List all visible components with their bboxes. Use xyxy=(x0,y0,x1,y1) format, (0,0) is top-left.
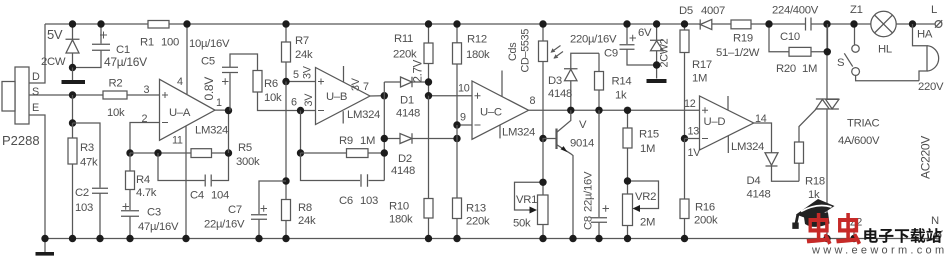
svg-text:200k: 200k xyxy=(694,215,718,227)
svg-text:3V: 3V xyxy=(302,65,314,79)
diode D2 xyxy=(384,133,457,143)
node rail-R12 xyxy=(453,20,460,27)
svg-text:C10: C10 xyxy=(780,31,800,43)
wire U-D out xyxy=(754,123,772,153)
node D1-R11 xyxy=(425,78,432,85)
node line-R15 xyxy=(624,107,631,114)
svg-text:104: 104 xyxy=(211,190,229,202)
svg-text:4: 4 xyxy=(177,76,183,88)
op-amp U-D xyxy=(700,96,754,150)
svg-text:4007: 4007 xyxy=(701,5,725,17)
svg-text:4A/600V: 4A/600V xyxy=(838,135,880,147)
svg-text:LM324: LM324 xyxy=(502,127,535,139)
svg-text:C5: C5 xyxy=(201,56,215,68)
svg-text:12: 12 xyxy=(684,98,696,110)
ground regulator xyxy=(647,79,667,83)
resistor R17 xyxy=(680,24,689,139)
node pin9 xyxy=(453,121,460,128)
svg-text:180k: 180k xyxy=(389,214,413,226)
node R3-C2 branch xyxy=(69,119,76,126)
svg-text:R1: R1 xyxy=(140,37,154,49)
U-C minus mark xyxy=(475,124,481,126)
resistor R16 xyxy=(680,139,689,239)
svg-text:Z1: Z1 xyxy=(850,4,863,16)
svg-text:R6: R6 xyxy=(264,78,278,90)
U-C ground tick xyxy=(499,125,501,138)
node VR2-gnd xyxy=(624,235,631,242)
resistor R6 xyxy=(253,71,316,111)
node R5-C4-out xyxy=(225,149,232,156)
node U-B out xyxy=(381,92,388,99)
node C2-gnd xyxy=(96,235,103,242)
capacitor C9 xyxy=(620,24,657,65)
watermark xyxy=(792,199,945,256)
svg-text:TRIAC: TRIAC xyxy=(847,118,880,130)
svg-text:R19: R19 xyxy=(733,33,753,45)
node rail-zener2 xyxy=(653,20,660,27)
svg-text:51–1/2W: 51–1/2W xyxy=(716,47,760,59)
op-amp U-C xyxy=(472,81,529,139)
svg-text:13: 13 xyxy=(688,126,700,138)
svg-text:22µ/16V: 22µ/16V xyxy=(583,171,595,212)
svg-text:R10: R10 xyxy=(389,201,409,213)
diode D5 (series in rail) xyxy=(700,19,712,29)
resistor R13 xyxy=(453,125,462,239)
lamp HL Z1 xyxy=(871,11,896,36)
node rail-Cds xyxy=(539,20,546,27)
watermark chongchong red xyxy=(807,213,832,245)
svg-text:D5: D5 xyxy=(679,5,693,17)
U-A plus input mark xyxy=(162,92,168,98)
svg-text:8: 8 xyxy=(530,95,536,107)
svg-text:R2: R2 xyxy=(109,78,123,90)
svg-text:R9: R9 xyxy=(339,135,353,147)
svg-text:D3: D3 xyxy=(548,75,562,87)
node C7-gnd xyxy=(255,235,262,242)
wire mic S line xyxy=(29,94,103,96)
buzzer HA xyxy=(913,24,939,81)
potentiometer VR1 xyxy=(515,139,549,239)
svg-text:4148: 4148 xyxy=(747,189,771,201)
capacitor C1 xyxy=(73,24,111,68)
node R9 right xyxy=(381,149,388,156)
resistor R12 xyxy=(453,24,462,125)
svg-text:0.8V: 0.8V xyxy=(202,77,216,101)
node R16-gnd xyxy=(681,235,688,242)
svg-text:10µ/16V: 10µ/16V xyxy=(189,38,230,50)
svg-text:3V: 3V xyxy=(350,77,362,91)
svg-text:AC220V: AC220V xyxy=(919,136,933,179)
wire pin13 line xyxy=(685,138,700,140)
node R13-gnd xyxy=(453,235,460,242)
U-D power tick xyxy=(727,96,729,110)
svg-text:R8: R8 xyxy=(298,202,312,214)
svg-text:U–C: U–C xyxy=(480,107,502,119)
svg-text:47k: 47k xyxy=(80,157,98,169)
transistor V 9014 xyxy=(543,110,574,238)
svg-text:220V: 220V xyxy=(918,81,944,93)
svg-text:47µ/16V: 47µ/16V xyxy=(104,55,147,69)
svg-text:1M: 1M xyxy=(360,135,375,147)
svg-text:U–D: U–D xyxy=(704,116,726,128)
svg-text:47µ/16V: 47µ/16V xyxy=(138,221,179,233)
wire pin10 line xyxy=(429,95,473,97)
node R14-line xyxy=(595,107,602,114)
svg-text:HL: HL xyxy=(878,44,892,56)
resistor R11 xyxy=(424,24,433,96)
svg-text:D4: D4 xyxy=(747,175,761,187)
wire U-C output main line xyxy=(529,109,700,111)
node rail-C1 xyxy=(97,20,104,27)
svg-text:1k: 1k xyxy=(615,90,627,102)
wire feedback line xyxy=(130,152,191,154)
diode D1 xyxy=(384,77,428,87)
resistor R14 xyxy=(595,53,604,110)
capacitor C3 xyxy=(121,190,139,239)
node C9-zener xyxy=(653,61,660,68)
svg-text:D: D xyxy=(32,71,40,83)
node C3-gnd xyxy=(126,235,133,242)
capacitor C8 xyxy=(591,110,609,238)
diode D4 xyxy=(765,153,799,182)
resistor R2 xyxy=(103,91,160,99)
svg-text:S: S xyxy=(837,57,845,69)
svg-text:4.7k: 4.7k xyxy=(136,187,157,199)
svg-text:VR2: VR2 xyxy=(635,191,656,203)
svg-text:C8: C8 xyxy=(583,216,595,230)
pin 4 power xyxy=(186,24,188,94)
node R20-triac column xyxy=(824,48,831,55)
wire pin9 line xyxy=(457,124,472,126)
resistor R15 xyxy=(623,110,632,181)
svg-text:180k: 180k xyxy=(466,49,490,61)
svg-text:R4: R4 xyxy=(136,174,150,186)
svg-text:2: 2 xyxy=(142,113,148,125)
capacitor C2 xyxy=(73,123,109,239)
wire bottom ground rail xyxy=(45,238,934,240)
node pin5 xyxy=(282,78,289,85)
svg-text:C6: C6 xyxy=(339,195,353,207)
node triac-gnd xyxy=(823,235,830,242)
svg-text:U–A: U–A xyxy=(169,107,191,119)
svg-text:1V: 1V xyxy=(688,147,702,159)
node rail-C9 xyxy=(623,20,630,27)
svg-text:C7: C7 xyxy=(228,204,242,216)
svg-text:220µ/16V: 220µ/16V xyxy=(570,34,617,46)
U-D minus mark xyxy=(702,138,708,140)
svg-text:LM324: LM324 xyxy=(195,125,228,137)
svg-text:L: L xyxy=(931,4,937,16)
svg-text:5V: 5V xyxy=(47,27,63,42)
svg-text:6V: 6V xyxy=(638,27,652,39)
svg-text:24k: 24k xyxy=(295,49,313,61)
svg-text:11: 11 xyxy=(172,135,183,147)
node VR2 wiper xyxy=(624,177,631,184)
svg-text:103: 103 xyxy=(360,195,378,207)
svg-text:C3: C3 xyxy=(147,207,161,219)
svg-text:4148: 4148 xyxy=(548,88,572,100)
svg-text:1M: 1M xyxy=(640,143,655,155)
node C8-gnd xyxy=(595,235,602,242)
resistor R20 xyxy=(769,24,828,56)
svg-text:3V: 3V xyxy=(303,93,315,107)
node emitter-gnd xyxy=(569,235,576,242)
U-A minus input mark xyxy=(162,122,168,124)
node rail-R11 xyxy=(425,20,432,27)
resistor R9 xyxy=(301,149,385,158)
U-C power tick xyxy=(501,71,503,97)
node pin2 feedback xyxy=(126,149,133,156)
node R3-gnd xyxy=(69,235,76,242)
svg-text:D2: D2 xyxy=(398,153,412,165)
svg-text:R17: R17 xyxy=(692,59,712,71)
capacitor C5 xyxy=(222,54,258,111)
svg-text:R18: R18 xyxy=(805,176,825,188)
terminal N xyxy=(933,231,943,241)
U-D plus mark xyxy=(702,107,708,113)
svg-text:300k: 300k xyxy=(236,156,260,168)
node rail-R20 xyxy=(765,20,772,27)
wire pin5 line xyxy=(286,81,316,83)
node R9 left xyxy=(297,149,304,156)
svg-text:LM324: LM324 xyxy=(347,109,380,121)
svg-text:9: 9 xyxy=(460,112,466,124)
resistor R19 (series in rail) xyxy=(731,20,751,29)
wire U-B out xyxy=(370,95,384,97)
svg-text:R20: R20 xyxy=(776,63,796,75)
U-D ground tick xyxy=(727,136,729,153)
svg-text:10: 10 xyxy=(458,83,470,95)
op-amp U-A xyxy=(160,79,216,140)
node D2-pin9 xyxy=(453,135,460,142)
op-amp U-B xyxy=(316,68,371,125)
U-B plus mark xyxy=(318,79,324,85)
resistor R7 xyxy=(282,24,291,82)
svg-text:C9: C9 xyxy=(604,48,618,60)
svg-text:4148: 4148 xyxy=(391,165,415,177)
terminal L xyxy=(935,20,942,28)
capacitor C10 (series in rail) xyxy=(806,18,812,31)
resistor R3 xyxy=(68,123,77,239)
svg-text:D1: D1 xyxy=(400,95,414,107)
svg-text:2CW2: 2CW2 xyxy=(659,38,671,67)
svg-text:www.eeworm.com: www.eeworm.com xyxy=(811,245,945,256)
node junction E-gnd xyxy=(41,235,48,242)
node rail-R7 xyxy=(282,20,289,27)
potentiometer VR2 xyxy=(623,181,659,239)
node C4 branch xyxy=(154,149,161,156)
node pin6 feedback xyxy=(297,107,304,114)
triac xyxy=(816,24,839,239)
svg-text:V: V xyxy=(579,119,587,131)
svg-text:220k: 220k xyxy=(393,49,417,61)
svg-text:R12: R12 xyxy=(467,34,487,46)
photoresistor Cds CD-5535 xyxy=(539,24,564,139)
U-B ground tick xyxy=(342,111,344,123)
svg-text:7: 7 xyxy=(363,81,369,93)
svg-text:R11: R11 xyxy=(394,33,413,45)
node rail-zener xyxy=(69,20,76,27)
node C7 branch xyxy=(282,177,289,184)
svg-text:R5: R5 xyxy=(238,142,252,154)
svg-text:10k: 10k xyxy=(264,92,282,104)
watermark site name xyxy=(864,228,878,243)
svg-text:R7: R7 xyxy=(295,35,309,47)
svg-text:CD–5535: CD–5535 xyxy=(520,29,532,73)
capacitor C7 xyxy=(251,181,286,239)
wire pin6 down xyxy=(300,111,302,154)
svg-text:5: 5 xyxy=(293,69,299,81)
node VR1 wiper top xyxy=(539,179,546,186)
svg-text:LM324: LM324 xyxy=(731,141,764,153)
node rail-triac xyxy=(823,20,830,27)
node R8-gnd xyxy=(282,235,289,242)
resistor R1 (series in rail) xyxy=(148,21,169,29)
svg-text:R14: R14 xyxy=(612,76,632,88)
wire left rail drop to mic D xyxy=(29,24,45,83)
svg-text:24k: 24k xyxy=(298,215,316,227)
wire U-A output xyxy=(215,110,229,153)
node Cds-base xyxy=(539,135,546,142)
node R10-gnd xyxy=(425,235,432,242)
svg-text:P2288: P2288 xyxy=(2,133,40,148)
svg-text:224/400V: 224/400V xyxy=(772,5,819,17)
zener D 2CW xyxy=(66,24,80,68)
node pin13 xyxy=(681,135,688,142)
svg-text:2.7V: 2.7V xyxy=(413,59,425,82)
svg-text:22µ/16V: 22µ/16V xyxy=(204,219,245,231)
wire mic E line to ground xyxy=(29,115,45,239)
svg-text:C4: C4 xyxy=(190,190,204,202)
U-B minus mark xyxy=(318,110,324,112)
resistor R10 xyxy=(424,96,433,239)
svg-text:100: 100 xyxy=(161,37,179,49)
svg-text:VR1: VR1 xyxy=(516,194,537,206)
watermark graduation cap xyxy=(792,199,834,229)
node rail-R17 xyxy=(681,20,688,27)
svg-text:6: 6 xyxy=(291,97,297,109)
node rail-switch xyxy=(850,20,857,27)
svg-text:50k: 50k xyxy=(513,218,531,230)
svg-text:3: 3 xyxy=(144,84,150,96)
svg-text:2CW: 2CW xyxy=(41,56,66,68)
switch S xyxy=(844,24,919,81)
U-C plus mark xyxy=(475,93,481,99)
node VR1-gnd xyxy=(539,235,546,242)
svg-text:R3: R3 xyxy=(80,142,94,154)
capacitor C6 xyxy=(301,153,385,187)
ground main xyxy=(44,239,46,253)
node S-R3 junction xyxy=(69,91,76,98)
svg-text:220k: 220k xyxy=(466,216,490,228)
svg-text:1: 1 xyxy=(216,97,222,109)
svg-text:S: S xyxy=(32,86,39,98)
resistor R5 xyxy=(191,149,229,158)
wire S branch down xyxy=(72,95,74,123)
svg-text:HA: HA xyxy=(917,29,933,41)
svg-text:2M: 2M xyxy=(640,217,655,229)
svg-text:C2: C2 xyxy=(75,187,89,199)
svg-text:1M: 1M xyxy=(802,63,817,75)
node zener-C1 join xyxy=(69,64,76,71)
node Z2 stub xyxy=(853,228,855,239)
wire out vertical to D1 D2 xyxy=(383,82,385,181)
diode D3 xyxy=(564,53,599,110)
wire U-A pin2 to feedback node xyxy=(130,123,160,154)
svg-text:1M: 1M xyxy=(692,73,707,85)
svg-text:Cds: Cds xyxy=(507,42,519,61)
U-B power tick xyxy=(343,66,345,82)
svg-text:U–B: U–B xyxy=(326,91,347,103)
capacitor C4 xyxy=(158,153,229,187)
node U-A out xyxy=(225,107,232,114)
node D2 branch xyxy=(381,135,388,142)
resistor R8 xyxy=(282,82,291,239)
wire top 5V rail xyxy=(45,23,936,25)
svg-text:E: E xyxy=(32,102,39,114)
svg-text:R15: R15 xyxy=(639,129,659,141)
svg-text:4148: 4148 xyxy=(396,108,420,120)
resistor R4 xyxy=(126,153,135,190)
resistor R18 xyxy=(795,109,816,181)
microphone P2288 xyxy=(2,67,29,124)
svg-text:N: N xyxy=(931,215,939,227)
pin 11 ground xyxy=(185,126,187,239)
svg-text:R13: R13 xyxy=(466,203,486,215)
svg-text:R16: R16 xyxy=(695,202,715,214)
node lamp-HA xyxy=(909,20,916,27)
svg-text:103: 103 xyxy=(75,202,93,214)
svg-text:9014: 9014 xyxy=(570,138,594,150)
node pin10 xyxy=(425,92,432,99)
ground analog xyxy=(72,68,74,81)
svg-text:10k: 10k xyxy=(107,107,125,119)
zener 2CW2 xyxy=(650,24,664,79)
node D3-collector xyxy=(567,107,574,114)
